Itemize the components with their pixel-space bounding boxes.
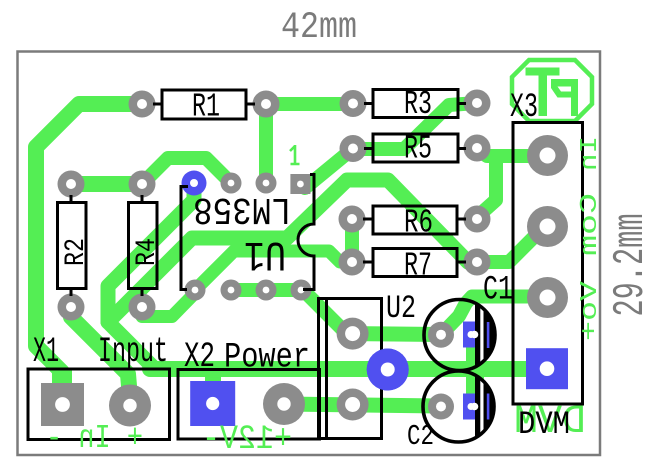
capacitor C2 plus-pad hole [471,403,479,411]
wire R5 right to X3 pad1 [477,149,548,156]
pad R6.1 [339,206,366,233]
svg-text:R7: R7 [404,248,432,285]
via V1 [182,171,207,196]
pad X3.1 In [527,135,568,176]
pad R4.1 [129,171,156,198]
pad R7.1 [339,249,366,276]
svg-text:U1: U1 [244,230,286,278]
pad C1.+ (blue) [463,322,479,348]
pad X3.3 Vo+ [527,277,568,318]
svg-text:DVM: DVM [518,406,570,443]
svg-text:R4: R4 [132,238,163,266]
wire power rail horizontal [150,361,548,377]
resistor R1 leads [153,103,255,106]
svg-text:+ In -: + In - [46,420,143,457]
svg-text:R2: R2 [61,238,92,266]
wire C1 pad to X3 pad3 [441,297,544,335]
connector X2 box [178,370,320,440]
pad U1.4 [221,280,242,301]
via V2 (power) redraw over outline [367,349,409,391]
pad R5.1 [340,135,367,162]
wire stub X2 blue pad to power rail [205,366,221,383]
svg-text:X1: X1 [33,332,59,372]
pad R3.1 [340,90,367,117]
wire R5 left to R3 right [353,103,477,149]
logo octagon outline [512,60,592,121]
connector X1 box [28,369,170,440]
pad U1.1 (square) [290,174,310,194]
wire branch to R6 right [477,156,496,217]
resistor R7 body [373,249,457,277]
pad R1.1 [129,91,156,118]
resistor R2 body [58,203,87,289]
capacitor C1 plus-pad hole [471,331,479,339]
capacitor C2 outline [423,371,494,442]
svg-text:R3: R3 [404,86,432,123]
wire R1 right to R3 left [266,97,353,111]
logo letter P (mirrored outline) [551,79,578,116]
wire R4 top arch to U1 pin [142,158,231,184]
capacitor C1 outline [424,300,495,371]
wire U1 pin arch to R7 left [195,251,352,290]
wire via to power rail (diag) [108,183,194,369]
wire junction to R7 right via mid arch [108,180,477,322]
svg-text:X3: X3 [510,89,538,127]
pad R4.2 [129,294,156,321]
pad X2.1 (blue square, +12V) [190,381,235,426]
pad U1.3 [256,280,277,301]
wire R1 right down to U1 pin [259,104,273,183]
pad R5.2 [464,135,491,162]
wire X1- to R1 left (net IN-) [36,104,142,386]
op-amp U1 outline right bracket with pin1 notch [298,175,314,290]
wire R7 right to X3 pad2 [477,227,548,262]
pad R7.2 [464,249,491,276]
capacitor C2 polarity crescent [475,370,497,444]
svg-text:U2: U2 [386,290,416,327]
pad U1.8 [221,173,242,194]
resistor R3 leads [364,102,466,105]
wire R5 left to U1 pin1 [305,149,353,189]
pad X1.1 (square, minus) [41,383,84,426]
resistor R3 body [373,90,458,118]
pad U1.7 [256,173,277,194]
wire U1 bottom pins to U2 top [231,290,353,334]
pad R6.2 [464,206,491,233]
wire stub C2 blue pad to power rail [466,367,484,396]
svg-text:R1: R1 [192,89,220,126]
resistor R6 leads [363,218,466,221]
wire stub C1 blue pad to power rail [466,345,484,371]
resistor R5 body [373,134,458,162]
wire stub X1 square pad entry [52,368,72,386]
svg-text:C2: C2 [407,420,434,453]
pad X3.2 Com [527,206,568,247]
wire X1+ to R2 bottom [71,307,130,398]
pad U2.1 [337,318,369,350]
svg-text:Power: Power [224,338,310,378]
wire R4 bottom to U1 pin (feedback) [142,293,195,317]
wire R6 left to R7 left [345,219,359,262]
resistor R4 body [129,203,158,289]
svg-text:X2: X2 [184,337,215,377]
pad U1.5 [185,280,206,301]
board outline [18,52,601,456]
resistor R1 body [162,90,246,119]
pad X3.4 (blue square, V+) [526,348,568,389]
pad X1.2 (plus) [109,385,151,427]
resistor R2 leads [70,195,73,296]
resistor R4 leads [141,195,144,296]
regulator U2 box [319,299,382,439]
pad R2.2 [58,294,85,321]
wire U2 top to C1 pad [353,326,441,342]
resistor R7 leads [363,261,466,264]
svg-text:+12V-: +12V- [202,421,292,459]
svg-text:C1: C1 [483,272,513,310]
op-amp U1 outline left bracket [181,187,188,290]
pad C1.- [428,322,454,348]
svg-text:42mm: 42mm [281,7,357,49]
svg-text:29.2mm: 29.2mm [606,214,649,317]
pad C2.+ (blue) [463,394,479,420]
svg-text:R6: R6 [404,205,433,242]
svg-text:R5: R5 [404,131,432,168]
connector X3 box [513,123,583,405]
pad U2.3 [337,389,369,421]
regulator U2 tab line [325,299,328,439]
resistor R6 body [373,206,457,234]
label pin1 marker "1" (green) [290,145,300,164]
logo letter T (filled) [526,68,560,76]
svg-text:LM358: LM358 [193,187,291,230]
wire X2+ through U2 bottom to C2 pad [284,404,441,406]
pad R1.2 [253,91,280,118]
pad U1.2 [291,280,312,301]
capacitor C1 polarity crescent [475,298,497,372]
wire R2 top to R4 top [71,176,142,192]
pad R2.1 [58,171,85,198]
pad X2.2 [263,383,305,425]
pad R3.2 [464,90,491,117]
svg-text:Input: Input [98,332,168,372]
pad C2.- [428,394,454,420]
resistor R5 leads [364,147,466,150]
via V2 (power) [367,349,409,391]
